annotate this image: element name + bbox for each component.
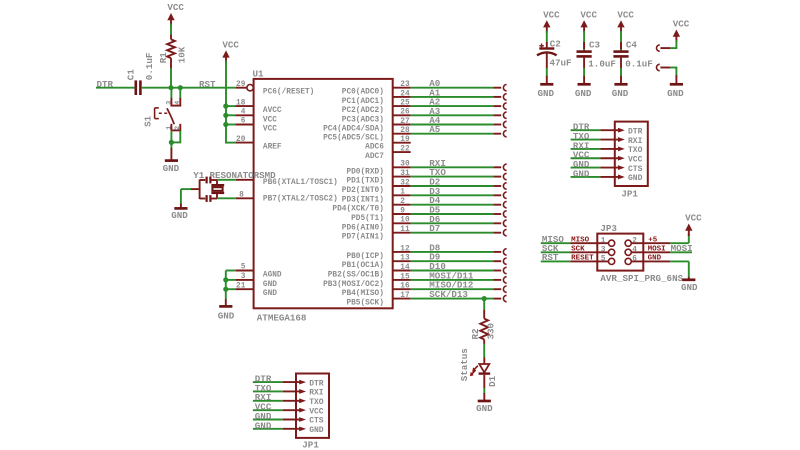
svg-text:6: 6 bbox=[632, 256, 637, 264]
svg-text:PB3(MOSI/OC2): PB3(MOSI/OC2) bbox=[323, 281, 384, 289]
resistor R2 330 bbox=[470, 310, 497, 344]
pin 25 PC2(ADC2) bbox=[342, 100, 411, 116]
power VCC (C2) bbox=[543, 9, 560, 32]
svg-text:20: 20 bbox=[236, 136, 246, 144]
svg-text:10K: 10K bbox=[176, 46, 187, 63]
svg-text:A5: A5 bbox=[429, 124, 441, 135]
svg-text:GND: GND bbox=[575, 88, 592, 99]
wire XTAL1 to chip bbox=[217, 179, 236, 181]
svg-text:2: 2 bbox=[174, 126, 182, 130]
resonator Y1 bbox=[193, 170, 276, 202]
pin 19 ADC6 bbox=[365, 136, 411, 152]
wire net D8 bbox=[411, 249, 507, 255]
pin 18 AVCC bbox=[236, 99, 282, 115]
svg-text:6: 6 bbox=[241, 118, 246, 126]
svg-text:330: 330 bbox=[486, 323, 497, 340]
capacitor C1 0.1uF bbox=[126, 53, 156, 95]
svg-text:21: 21 bbox=[236, 282, 246, 290]
svg-text:29: 29 bbox=[236, 81, 246, 89]
wire C4 to GND bbox=[620, 68, 622, 76]
svg-text:PD3(INT1): PD3(INT1) bbox=[342, 196, 384, 204]
svg-text:12: 12 bbox=[400, 245, 410, 253]
svg-text:RST: RST bbox=[542, 252, 559, 263]
svg-text:VCC: VCC bbox=[673, 19, 690, 30]
pin 5 RESET (JP3) bbox=[570, 255, 614, 265]
wire VCC down to AVCC/VCC/AREF bbox=[225, 61, 227, 143]
svg-text:PD0(RXD): PD0(RXD) bbox=[346, 168, 383, 176]
svg-text:9: 9 bbox=[400, 207, 405, 215]
pin 9 PD5(T1) bbox=[351, 207, 411, 223]
svg-text:VCC: VCC bbox=[263, 116, 277, 124]
pin 21 GND bbox=[236, 282, 277, 298]
wire jumper VCC bbox=[670, 47, 677, 49]
pin 3 SCK (JP3) bbox=[570, 246, 614, 256]
svg-text:PD2(INT0): PD2(INT0) bbox=[342, 187, 384, 195]
pin 1 MISO (JP3) bbox=[570, 237, 614, 247]
wire VCC to R1 bbox=[170, 24, 172, 35]
svg-text:GND: GND bbox=[573, 168, 590, 179]
junction GND pin21 bbox=[223, 287, 228, 292]
svg-text:DTR: DTR bbox=[309, 379, 324, 388]
wire net DTR (JP1 pin 1) bbox=[253, 381, 283, 383]
wire GND3 stub bbox=[226, 279, 236, 281]
wire net D7 bbox=[411, 230, 507, 236]
pin 15 PB3(MOSI/OC2) bbox=[323, 273, 411, 289]
svg-text:19: 19 bbox=[400, 136, 410, 144]
svg-text:25: 25 bbox=[400, 100, 410, 108]
wire GND column bbox=[225, 271, 227, 300]
svg-text:PB1(OC1A): PB1(OC1A) bbox=[342, 262, 384, 270]
pin 12 PB0(ICP) bbox=[346, 245, 410, 261]
pin 3 TXO bbox=[283, 398, 324, 407]
svg-text:4: 4 bbox=[174, 101, 182, 105]
svg-text:GND: GND bbox=[263, 290, 277, 298]
svg-text:2: 2 bbox=[400, 198, 405, 206]
pin 26 PC3(ADC3) bbox=[342, 109, 411, 125]
connector JP1 box bbox=[296, 374, 329, 438]
svg-text:U1: U1 bbox=[253, 69, 265, 80]
wire net D6 bbox=[411, 220, 507, 226]
svg-text:1: 1 bbox=[166, 126, 174, 130]
svg-text:ADC7: ADC7 bbox=[365, 153, 384, 161]
svg-text:RXI: RXI bbox=[628, 137, 643, 146]
wire net TXO (JP1 pin 2) bbox=[253, 390, 283, 392]
pin 1 PD3(INT1) bbox=[342, 189, 411, 205]
svg-text:1.0uF: 1.0uF bbox=[588, 58, 616, 69]
svg-text:1: 1 bbox=[601, 237, 606, 245]
svg-text:0.1uF: 0.1uF bbox=[625, 58, 653, 69]
svg-text:24: 24 bbox=[400, 90, 410, 98]
svg-text:PB0(ICP): PB0(ICP) bbox=[346, 253, 383, 261]
svg-text:GND: GND bbox=[218, 311, 235, 322]
wire net MISO (JP3) bbox=[541, 242, 571, 244]
svg-text:AVCC: AVCC bbox=[263, 107, 282, 115]
pin 4 VCC bbox=[600, 155, 642, 164]
svg-text:PC2(ADC2): PC2(ADC2) bbox=[342, 107, 384, 115]
svg-text:GND: GND bbox=[255, 420, 272, 431]
svg-text:GND: GND bbox=[476, 403, 493, 414]
wire AGND stub bbox=[226, 270, 236, 272]
pin 24 PC1(ADC1) bbox=[342, 90, 411, 106]
svg-text:31: 31 bbox=[400, 170, 410, 178]
svg-text:DTR: DTR bbox=[628, 127, 643, 136]
power VCC (chip supply) bbox=[222, 40, 239, 63]
svg-text:18: 18 bbox=[236, 99, 246, 107]
wire C2 to GND bbox=[546, 68, 548, 76]
svg-text:PB2(SS/OC1B): PB2(SS/OC1B) bbox=[328, 272, 384, 280]
svg-text:10: 10 bbox=[400, 217, 410, 225]
wire net VCC (JP1 pin 4) bbox=[571, 157, 601, 159]
wire net D9 bbox=[411, 258, 507, 264]
wire net RXI (JP1 pin 3) bbox=[253, 400, 283, 402]
svg-text:PC6(/RESET): PC6(/RESET) bbox=[263, 89, 314, 97]
wire S1 pin2 down bbox=[179, 130, 181, 142]
svg-text:4: 4 bbox=[241, 109, 246, 117]
svg-text:22: 22 bbox=[400, 146, 410, 154]
ground GND (chip) bbox=[218, 306, 235, 321]
ground GND (C2) bbox=[538, 84, 555, 99]
ground GND (C3) bbox=[575, 84, 592, 99]
svg-text:23: 23 bbox=[400, 81, 410, 89]
wire net VCC (JP1 pin 4) bbox=[253, 409, 283, 411]
svg-text:PC5(ADC5/SCL): PC5(ADC5/SCL) bbox=[323, 135, 384, 143]
svg-text:28: 28 bbox=[400, 127, 410, 135]
svg-text:CTS: CTS bbox=[628, 165, 643, 174]
power VCC (JP3) bbox=[685, 213, 702, 236]
svg-text:13: 13 bbox=[400, 255, 410, 263]
svg-text:3: 3 bbox=[166, 101, 174, 105]
svg-text:Status: Status bbox=[459, 348, 470, 381]
svg-text:17: 17 bbox=[400, 292, 410, 300]
svg-text:MOSI: MOSI bbox=[648, 246, 666, 254]
svg-text:GND: GND bbox=[538, 88, 555, 99]
svg-text:GND: GND bbox=[171, 210, 188, 221]
wire net A5 bbox=[411, 131, 507, 137]
wire S1 to GND bbox=[170, 142, 172, 148]
ground GND (S1) bbox=[163, 161, 180, 175]
pin 13 PB1(OC1A) bbox=[342, 255, 411, 271]
svg-text:47uF: 47uF bbox=[550, 57, 572, 68]
wire net D5 bbox=[411, 211, 507, 217]
wire jumper GND bbox=[670, 67, 677, 69]
pin 10 PD6(AIN0) bbox=[342, 217, 411, 233]
wire net GND (JP1 pin 6) bbox=[571, 176, 601, 178]
junction S1 to GND bbox=[169, 140, 174, 145]
wire net MISO/D12 bbox=[411, 286, 507, 292]
pin 2 PD4(XCK/T0) bbox=[332, 198, 410, 214]
svg-text:D1: D1 bbox=[487, 375, 498, 387]
pin 2 RXI bbox=[283, 389, 324, 398]
pin 4 VCC bbox=[236, 109, 277, 125]
wire net A2 bbox=[411, 103, 507, 109]
svg-text:JP1: JP1 bbox=[302, 440, 319, 450]
svg-text:15: 15 bbox=[400, 273, 410, 281]
pin 5 CTS bbox=[283, 417, 324, 426]
svg-text:RST: RST bbox=[199, 79, 216, 90]
wire net D10 bbox=[411, 267, 507, 273]
junction GND pin3 bbox=[223, 277, 228, 282]
svg-text:0.1uF: 0.1uF bbox=[144, 53, 155, 81]
svg-text:RESET: RESET bbox=[571, 255, 594, 263]
wire RST to S1 pin4 bbox=[179, 88, 181, 99]
wire net D3 bbox=[411, 192, 507, 198]
svg-text:VCC: VCC bbox=[543, 9, 560, 20]
svg-text:SCK/D13: SCK/D13 bbox=[429, 289, 468, 300]
pin 27 PC4(ADC4/SDA) bbox=[323, 118, 411, 134]
wire net MOSI/D11 bbox=[411, 277, 507, 283]
wire net RXI (JP1 pin 3) bbox=[571, 148, 601, 150]
pin 23 PC0(ADC0) bbox=[342, 81, 411, 97]
wire XTAL2 to chip bbox=[217, 197, 236, 199]
power VCC (C3) bbox=[580, 9, 597, 32]
svg-text:PC4(ADC4/SDA): PC4(ADC4/SDA) bbox=[323, 126, 384, 134]
svg-text:JP1: JP1 bbox=[621, 188, 638, 199]
op-amp U1 ATMEGA168 body bbox=[254, 79, 393, 308]
svg-text:PD1(TXD): PD1(TXD) bbox=[346, 178, 383, 186]
junction VCC pin6 bbox=[223, 122, 228, 127]
wire net RST (JP3) bbox=[541, 260, 571, 262]
svg-text:CTS: CTS bbox=[309, 417, 324, 426]
pin 32 PD2(INT0) bbox=[342, 179, 411, 195]
wire R1 to RST net bbox=[170, 68, 172, 88]
pin 4 MOSI (JP3) bbox=[625, 246, 670, 256]
svg-text:5: 5 bbox=[601, 256, 606, 264]
svg-text:GND: GND bbox=[612, 88, 629, 99]
svg-text:VCC: VCC bbox=[309, 407, 324, 416]
svg-text:C3: C3 bbox=[589, 39, 601, 50]
wire net MOSI bbox=[670, 251, 692, 253]
svg-text:S1: S1 bbox=[143, 115, 154, 127]
wire S1 pin1 down bbox=[170, 130, 172, 142]
svg-text:30: 30 bbox=[400, 161, 410, 169]
wire C1 to RST pin bbox=[142, 87, 236, 89]
power VCC (jumper) bbox=[673, 19, 690, 42]
capacitor C2 47uF bbox=[537, 31, 572, 69]
wire D1 to GND bbox=[483, 375, 485, 389]
svg-text:PC3(ADC3): PC3(ADC3) bbox=[342, 116, 384, 124]
svg-text:GND: GND bbox=[163, 163, 180, 174]
svg-text:R2: R2 bbox=[470, 328, 481, 339]
svg-text:AVR_SPI_PRG_6NS: AVR_SPI_PRG_6NS bbox=[600, 273, 683, 284]
wire GND (JP3) bbox=[670, 260, 689, 262]
pin 6 GND bbox=[600, 174, 642, 183]
ground GND (resonator) bbox=[171, 208, 188, 220]
pin 3 GND bbox=[236, 273, 277, 289]
wire net D2 bbox=[411, 183, 507, 189]
pin 2 +5 (JP3) bbox=[625, 237, 670, 247]
jumper pin to VCC bbox=[657, 45, 671, 51]
pin 11 PD7(AIN1) bbox=[342, 226, 411, 242]
junction on RST at S1 bbox=[178, 85, 183, 90]
pin 16 PB4(MISO) bbox=[342, 283, 411, 299]
wire R2 to D1 bbox=[483, 344, 485, 358]
wire net A4 bbox=[411, 121, 507, 127]
svg-text:PD4(XCK/T0): PD4(XCK/T0) bbox=[332, 206, 383, 214]
svg-text:JP3: JP3 bbox=[600, 223, 617, 234]
connector JP1 box bbox=[615, 122, 648, 186]
pin 29 PC6(/RESET) bbox=[236, 81, 315, 97]
switch S1 bbox=[143, 98, 183, 130]
wire D13 to R2 bbox=[483, 299, 485, 311]
power VCC (above R1) bbox=[167, 2, 184, 25]
svg-text:11: 11 bbox=[400, 226, 410, 234]
svg-text:SCK: SCK bbox=[571, 246, 585, 254]
svg-text:GND: GND bbox=[628, 174, 643, 183]
pin 17 PB5(SCK) bbox=[346, 292, 410, 308]
pin 1 DTR bbox=[600, 127, 642, 136]
svg-text:GND: GND bbox=[309, 426, 324, 435]
wire DTR to C1 bbox=[96, 87, 134, 89]
pin 20 AREF bbox=[236, 136, 282, 152]
wire net A1 bbox=[411, 94, 507, 100]
svg-text:PD7(AIN1): PD7(AIN1) bbox=[342, 234, 384, 242]
wire net SCK (JP3) bbox=[541, 251, 571, 253]
resistor R1 bbox=[158, 35, 187, 69]
wire net A0 bbox=[411, 85, 507, 91]
svg-text:D7: D7 bbox=[429, 223, 440, 234]
svg-text:C1: C1 bbox=[126, 69, 137, 81]
pin 8 PB7 XTAL2 bbox=[236, 191, 338, 203]
svg-text:VCC: VCC bbox=[580, 9, 597, 20]
wire C3 to GND bbox=[583, 68, 585, 76]
svg-text:MISO: MISO bbox=[571, 237, 590, 245]
svg-text:PB4(MISO): PB4(MISO) bbox=[342, 290, 384, 298]
pin 28 PC5(ADC5/SCL) bbox=[323, 127, 411, 143]
connector JP3 box bbox=[597, 234, 643, 271]
svg-text:PC1(ADC1): PC1(ADC1) bbox=[342, 98, 384, 106]
wire AREF bbox=[225, 142, 236, 144]
wire net D4 bbox=[411, 202, 507, 208]
svg-text:RXI: RXI bbox=[309, 389, 324, 398]
svg-text:27: 27 bbox=[400, 118, 410, 126]
svg-text:VCC: VCC bbox=[263, 126, 277, 134]
pin PB6 XTAL1 bbox=[236, 179, 338, 187]
power VCC (C4) bbox=[617, 9, 634, 32]
pin 14 PB2(SS/OC1B) bbox=[328, 264, 411, 280]
wire to GND symbol bbox=[225, 299, 227, 305]
wire net TXO (JP1 pin 2) bbox=[571, 139, 601, 141]
pin 3 TXO bbox=[600, 146, 642, 155]
svg-text:3: 3 bbox=[241, 273, 246, 281]
wire net GND (JP1 pin 6) bbox=[253, 428, 283, 430]
pin 4 VCC bbox=[283, 407, 324, 416]
pin 22 ADC7 bbox=[365, 146, 411, 162]
wire RST to S1 pin3 bbox=[170, 88, 172, 99]
svg-text:C2: C2 bbox=[550, 38, 561, 49]
svg-text:+5: +5 bbox=[648, 237, 658, 245]
ground GND (D1) bbox=[476, 401, 493, 414]
svg-text:GND: GND bbox=[648, 255, 662, 263]
svg-text:GND: GND bbox=[667, 88, 684, 99]
svg-text:14: 14 bbox=[400, 264, 410, 272]
svg-text:3: 3 bbox=[601, 247, 606, 255]
wire net GND (JP1 pin 5) bbox=[253, 419, 283, 421]
junction D13 to R2 bbox=[482, 296, 487, 301]
junction on RST at R1 bbox=[168, 85, 173, 90]
svg-text:ATMEGA168: ATMEGA168 bbox=[257, 313, 307, 324]
svg-text:MOSI: MOSI bbox=[671, 243, 693, 254]
svg-text:PD5(T1): PD5(T1) bbox=[351, 215, 384, 223]
ground GND (C4) bbox=[612, 84, 629, 99]
wire +5 to VCC bbox=[670, 242, 689, 244]
svg-text:VCC: VCC bbox=[222, 40, 239, 51]
svg-text:16: 16 bbox=[400, 283, 410, 291]
svg-text:VCC: VCC bbox=[628, 155, 643, 164]
svg-text:VCC: VCC bbox=[617, 9, 634, 20]
svg-text:TXO: TXO bbox=[628, 146, 643, 155]
wire VCC4 stub bbox=[226, 114, 236, 116]
svg-text:C4: C4 bbox=[626, 39, 638, 50]
svg-text:AREF: AREF bbox=[263, 144, 282, 152]
wire net A3 bbox=[411, 112, 507, 118]
LED D1 Status bbox=[459, 348, 498, 387]
svg-text:VCC: VCC bbox=[167, 2, 184, 13]
svg-text:ADC6: ADC6 bbox=[365, 144, 384, 152]
pin 5 AGND bbox=[236, 264, 282, 280]
svg-text:PB5(SCK): PB5(SCK) bbox=[346, 300, 383, 308]
wire net RXI bbox=[411, 164, 507, 170]
capacitor C4 0.1uF bbox=[613, 31, 652, 69]
ground GND (jumper) bbox=[667, 84, 684, 99]
svg-text:32: 32 bbox=[400, 179, 410, 187]
svg-text:1: 1 bbox=[400, 189, 405, 197]
svg-text:4: 4 bbox=[632, 247, 637, 255]
svg-text:2: 2 bbox=[632, 237, 637, 245]
svg-text:5: 5 bbox=[241, 264, 246, 272]
jumper pin to GND bbox=[657, 64, 671, 70]
svg-text:TXO: TXO bbox=[309, 398, 324, 407]
wire VCC6 stub bbox=[226, 124, 236, 126]
wire resonator GND pin bbox=[181, 189, 200, 208]
svg-text:26: 26 bbox=[400, 109, 410, 117]
svg-text:PC0(ADC0): PC0(ADC0) bbox=[342, 89, 384, 97]
wire net GND (JP1 pin 5) bbox=[571, 167, 601, 169]
svg-text:PD6(AIN0): PD6(AIN0) bbox=[342, 224, 384, 232]
pin 2 RXI bbox=[600, 137, 642, 146]
pin 6 GND bbox=[283, 426, 324, 435]
ground GND (JP3) bbox=[681, 280, 698, 293]
pin 6 VCC bbox=[236, 118, 277, 134]
wire GND21 stub bbox=[226, 288, 236, 290]
pin 30 PD0(RXD) bbox=[346, 161, 410, 177]
svg-text:GND: GND bbox=[681, 282, 698, 293]
junction AVCC bbox=[223, 104, 228, 109]
pin 6 GND (JP3) bbox=[625, 255, 670, 265]
pin 5 CTS bbox=[600, 165, 642, 174]
pin 1 DTR bbox=[283, 379, 324, 388]
wire net SCK/D13 bbox=[411, 295, 507, 301]
pin 31 PD1(TXD) bbox=[346, 170, 410, 186]
wire AVCC stub bbox=[226, 105, 236, 107]
svg-text:R1: R1 bbox=[158, 52, 169, 64]
svg-text:VCC: VCC bbox=[685, 213, 702, 224]
svg-text:8: 8 bbox=[239, 191, 244, 199]
junction VCC pin4 bbox=[223, 113, 228, 118]
wire net DTR (JP1 pin 1) bbox=[571, 129, 601, 131]
wire net TXO bbox=[411, 173, 507, 179]
capacitor C3 1.0uF bbox=[577, 31, 616, 69]
svg-text:GND: GND bbox=[263, 281, 277, 289]
svg-text:AGND: AGND bbox=[263, 272, 282, 280]
svg-text:PB7(XTAL2/TOSC2): PB7(XTAL2/TOSC2) bbox=[263, 195, 338, 203]
